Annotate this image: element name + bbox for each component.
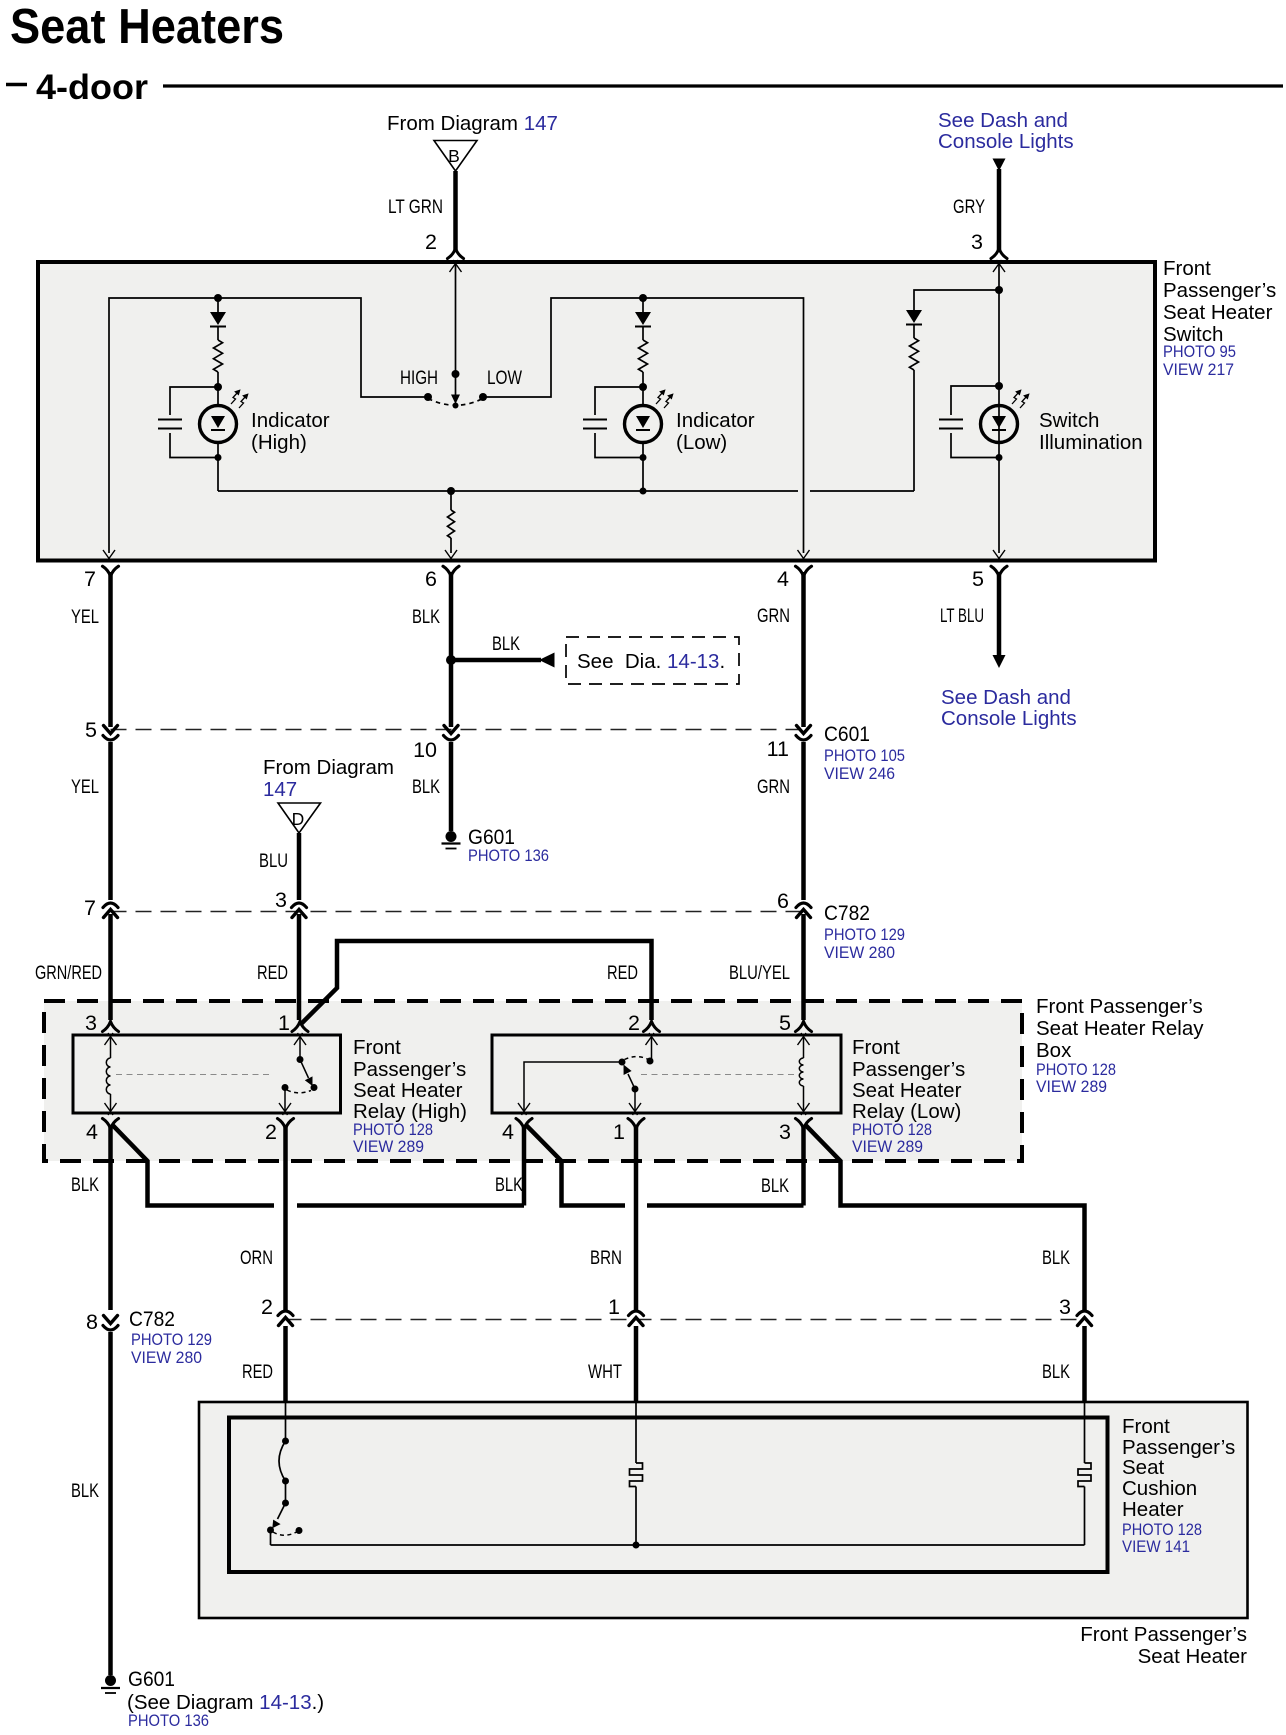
fork relay high pin 2 [278, 1119, 294, 1129]
relay high contact to pin 2 [284, 1088, 286, 1112]
label Front Passengers Seat Cushion Heater [1122, 1415, 1235, 1556]
svg-text:PHOTO 128: PHOTO 128 [353, 1121, 433, 1139]
svg-text:PHOTO 129: PHOTO 129 [824, 926, 905, 944]
dashed connector line C782 (lower) [286, 1319, 1085, 1321]
svg-text:Passenger’s: Passenger’s [1163, 279, 1276, 302]
svg-text:(High): (High) [251, 431, 307, 454]
relay high coil wire bottom [110, 1094, 112, 1111]
connector triangle D from diagram 147 [278, 803, 321, 833]
svg-text:3: 3 [1059, 1295, 1071, 1319]
wire to indicator high diode [217, 298, 219, 312]
wire GRN/RED C782 to relay pin 3 [108, 914, 113, 1020]
thermostat closed contact [267, 1527, 274, 1534]
svg-text:1: 1 [608, 1295, 620, 1319]
resistor switch illumination [910, 338, 919, 370]
svg-text:From Diagram: From Diagram [263, 756, 394, 779]
arrow relay low pin 1 exit [629, 1103, 641, 1115]
svg-text:PHOTO 136: PHOTO 136 [128, 1712, 209, 1730]
connector C782 pin 1 [629, 1311, 644, 1326]
svg-text:Front: Front [1163, 257, 1211, 280]
connector C601 pin 6/10 [444, 726, 459, 741]
node illumination top [995, 286, 1003, 294]
svg-text:VIEW 280: VIEW 280 [824, 944, 895, 962]
svg-text:VIEW 217: VIEW 217 [1163, 361, 1234, 379]
wire BLK relay low pin 4 down [522, 1125, 527, 1206]
svg-text:4-door: 4-door [36, 67, 148, 107]
relay (low) box [492, 1035, 841, 1113]
svg-text:RED: RED [257, 962, 288, 984]
junction heater bus / element 1 [633, 1542, 640, 1549]
connector C782 pin 6 [796, 903, 811, 918]
capacitor switch illumination [939, 420, 963, 429]
wire resistor to LED (low) [642, 372, 644, 406]
wire BLK pin6 to C601 [449, 572, 454, 727]
wire LED low to common [642, 443, 644, 492]
svg-text:Seat Heater: Seat Heater [353, 1079, 463, 1102]
node indicator high top [214, 294, 222, 302]
node indicator low cap bottom [640, 454, 647, 461]
dashed connector line C782 [111, 911, 804, 913]
svg-text:GRN/RED: GRN/RED [35, 962, 102, 984]
capacitor indicator low [583, 420, 607, 429]
svg-text:Relay (Low): Relay (Low) [852, 1100, 961, 1123]
wire LT BLU pin5 down [997, 572, 1002, 656]
svg-text:147: 147 [263, 778, 297, 801]
svg-text:PHOTO 128: PHOTO 128 [852, 1121, 932, 1139]
fork relay high pin 4 [103, 1119, 119, 1129]
wire WHT C782 to heater [634, 1326, 639, 1403]
relay low coil wire bottom [803, 1086, 805, 1111]
node illumination cap tap [995, 382, 1003, 390]
svg-text:4: 4 [777, 567, 789, 591]
connector C601 pin 4/11 [796, 726, 811, 741]
arrow at pin 2 entry [450, 260, 462, 272]
svg-text:6: 6 [777, 889, 789, 913]
diode indicator low [635, 312, 651, 327]
svg-text:Seat Heater: Seat Heater [1138, 1645, 1248, 1668]
svg-text:Indicator: Indicator [251, 409, 330, 432]
svg-text:BLK: BLK [761, 1175, 789, 1197]
label Front Passengers Seat Heater Relay (High) [353, 1036, 467, 1156]
svg-text:11: 11 [767, 737, 789, 761]
wire GRN C601 to C782 [801, 742, 806, 900]
wire RED C782 to relay pin 1 [297, 914, 302, 1020]
arrow at pin 4 exit [798, 550, 810, 562]
svg-text:PHOTO 95: PHOTO 95 [1163, 343, 1236, 361]
svg-text:LOW: LOW [487, 367, 522, 389]
relay high switch pivot [297, 1056, 304, 1063]
svg-text:4: 4 [86, 1120, 98, 1144]
connector C782 pin 3 lower [1077, 1311, 1092, 1326]
svg-text:6: 6 [425, 567, 437, 591]
node indicator high cap tap [214, 383, 222, 391]
svg-text:GRY: GRY [953, 196, 985, 218]
svg-text:BLK: BLK [412, 776, 440, 798]
arrow at pin 3 entry [993, 260, 1005, 272]
svg-text:4: 4 [502, 1120, 514, 1144]
selector dashed throw arc [428, 399, 483, 406]
wire BLK relay high pin 4 down to C782 [108, 1125, 113, 1310]
connector triangle B from diagram 147 [434, 141, 477, 172]
svg-text:5: 5 [85, 718, 97, 742]
wire BLK relay low pin 3 down [801, 1125, 806, 1206]
arrow at pin 5 exit [993, 550, 1005, 562]
svg-text:PHOTO 128: PHOTO 128 [1036, 1061, 1116, 1079]
svg-text:(See Diagram 14-13.): (See Diagram 14-13.) [127, 1691, 324, 1714]
HIGH contact [424, 393, 432, 401]
wire LED high to common [217, 443, 219, 492]
front passenger seat heater relay box (dashed) [44, 1001, 1022, 1161]
svg-text:10: 10 [413, 738, 437, 762]
arrow relay low pin 4 exit [518, 1103, 530, 1115]
arrow relay low pin 2 entry [646, 1033, 658, 1045]
connector fork pin 4 [796, 566, 812, 576]
wire diode to resistor (illum) [913, 325, 915, 338]
node indicator low cap tap [639, 383, 647, 391]
wire common ground bus (right) [810, 490, 914, 492]
svg-text:Box: Box [1036, 1039, 1072, 1062]
thermostat bimetal arc [279, 1441, 286, 1481]
wire BLU/YEL C782 to relay pin 5 [801, 914, 806, 1020]
svg-text:PHOTO 129: PHOTO 129 [131, 1331, 212, 1349]
svg-text:BLK: BLK [71, 1174, 99, 1196]
thermostat to heater bus [270, 1530, 272, 1545]
node indicator low top [639, 294, 647, 302]
wire illumination resistor to bus [913, 370, 915, 491]
light arrows switch illumination [1012, 390, 1029, 408]
svg-text:D: D [292, 809, 305, 829]
connector C601 pin 5/7 [103, 726, 118, 741]
thermostat mid node [282, 1478, 289, 1485]
relay low pivot [632, 1086, 639, 1093]
light arrows indicator high [231, 390, 248, 408]
label Front Passengers Seat Heater Switch [1163, 257, 1276, 379]
svg-text:PHOTO 105: PHOTO 105 [824, 747, 905, 765]
thermostat open contact [296, 1527, 303, 1534]
svg-text:(Low): (Low) [676, 431, 727, 454]
relay high output contact [282, 1084, 289, 1091]
svg-text:HIGH: HIGH [400, 367, 438, 389]
arrow relay high pin 1 entry [294, 1033, 306, 1045]
wire RED into thermostat [285, 1403, 287, 1441]
svg-text:Seat Heater: Seat Heater [852, 1079, 962, 1102]
wire GRY to switch pin 3 [997, 169, 1002, 250]
wire GRN pin4 to C601 [801, 572, 806, 727]
svg-text:VIEW 289: VIEW 289 [1036, 1078, 1107, 1096]
svg-text:Front Passenger’s: Front Passenger’s [1036, 995, 1203, 1018]
arrow relay high pin 3 entry [105, 1033, 117, 1045]
svg-text:BLK: BLK [492, 633, 520, 655]
front passenger seat heater outer box [199, 1402, 1248, 1618]
wire pin2 to selector [455, 264, 457, 374]
diode switch illumination [906, 310, 922, 325]
svg-text:VIEW 289: VIEW 289 [852, 1138, 923, 1156]
wire common ground bus (left) [218, 490, 798, 492]
svg-text:3: 3 [971, 230, 983, 254]
selector blade arrow [451, 374, 460, 404]
wire cap illum bottom [951, 433, 999, 458]
svg-text:BLK: BLK [71, 1480, 99, 1502]
fork relay low pin 1 [628, 1119, 644, 1129]
heater element 2 [1078, 1463, 1091, 1487]
wire BLK bus left-mid [297, 1203, 524, 1208]
svg-text:8: 8 [86, 1310, 98, 1334]
svg-text:BLK: BLK [1042, 1247, 1070, 1269]
svg-text:GRN: GRN [757, 776, 790, 798]
svg-text:2: 2 [425, 230, 437, 254]
capacitor indicator high [158, 420, 182, 429]
svg-text:5: 5 [972, 567, 984, 591]
svg-text:Seat: Seat [1122, 1456, 1164, 1479]
heater element 1 [630, 1463, 643, 1487]
svg-text:3: 3 [275, 888, 287, 912]
svg-text:Illumination: Illumination [1039, 431, 1143, 454]
relay low coil wire top [803, 1037, 805, 1058]
wire BLK relay low pin3 branch to heater [805, 1124, 1085, 1310]
connector fork pin 5 [991, 566, 1007, 576]
connector fork at switch pin 2 [448, 249, 464, 259]
diode indicator high [210, 312, 226, 327]
svg-text:1: 1 [613, 1120, 625, 1144]
svg-text:VIEW 289: VIEW 289 [353, 1138, 424, 1156]
svg-text:LT GRN: LT GRN [388, 196, 443, 218]
dashed box See Dia. 14-13. [566, 637, 739, 684]
wire BLK branch to see dia 14-13 [451, 658, 541, 663]
svg-text:BLK: BLK [412, 606, 440, 628]
wire to indicator low diode [642, 298, 644, 312]
thermostat dashed throw arc [273, 1532, 297, 1535]
fork relay low pin 4 [516, 1119, 532, 1129]
svg-text:3: 3 [85, 1011, 97, 1035]
relay high coil wire top [110, 1037, 112, 1058]
svg-text:BLU/YEL: BLU/YEL [729, 962, 790, 984]
wire cap high bottom [170, 433, 218, 458]
svg-text:ORN: ORN [240, 1247, 273, 1269]
svg-text:C782: C782 [129, 1307, 175, 1331]
arrow relay low pin 3 exit [798, 1103, 810, 1115]
resistor indicator low [639, 340, 648, 372]
arrow from dash and console lights [993, 159, 1006, 172]
svg-text:Passenger’s: Passenger’s [353, 1058, 466, 1081]
junction indicator low / bus [640, 488, 647, 495]
selector pivot dot [453, 403, 459, 409]
svg-text:Heater: Heater [1122, 1498, 1184, 1521]
svg-text:BRN: BRN [590, 1247, 622, 1269]
svg-text:RED: RED [607, 962, 638, 984]
svg-text:BLK: BLK [495, 1174, 523, 1196]
connector C782 pin 2 [278, 1311, 293, 1326]
svg-text:1: 1 [278, 1011, 290, 1035]
svg-text:3: 3 [779, 1120, 791, 1144]
svg-text:RED: RED [242, 1361, 273, 1383]
node indicator high cap bottom [215, 454, 222, 461]
svg-text:G601: G601 [128, 1667, 175, 1691]
relay high actuation dashed link [116, 1074, 269, 1076]
svg-text:YEL: YEL [71, 776, 99, 798]
LED switch illumination [981, 406, 1018, 443]
front passenger seat cushion heater inner box [229, 1418, 1108, 1573]
relay low fixed contact [647, 1058, 654, 1065]
svg-text:VIEW 280: VIEW 280 [131, 1349, 202, 1367]
thermostat blade with arrow [272, 1503, 285, 1528]
wire resistor to pin 6 [450, 538, 452, 553]
relay (high) box [73, 1035, 341, 1113]
header rule [163, 84, 1283, 87]
fork relay high pin 3 [103, 1022, 119, 1032]
svg-text:C601: C601 [824, 722, 870, 746]
wire RED relay high pin1 to relay low pin2 [300, 941, 652, 1025]
relay high switch blade [300, 1060, 313, 1087]
relay high coil [106, 1058, 110, 1094]
svg-text:Front: Front [1122, 1415, 1170, 1438]
label Front Passengers Seat Heater Relay Box [1036, 995, 1204, 1096]
connector C782 pin 5/7 [103, 903, 118, 918]
relay high NO contact [311, 1084, 318, 1091]
LED indicator high [200, 406, 237, 443]
wire BLK relay low pin4 branch [525, 1124, 625, 1206]
svg-text:Front Passenger’s: Front Passenger’s [1080, 1623, 1247, 1646]
ground G601 (middle) [442, 831, 461, 849]
LED indicator low [625, 406, 662, 443]
arrow relay high pin 4 exit [105, 1103, 117, 1115]
wire BLK bus mid-right [647, 1203, 804, 1208]
svg-text:Indicator: Indicator [676, 409, 755, 432]
wire to cap low top [595, 387, 643, 415]
svg-text:VIEW 141: VIEW 141 [1122, 1538, 1190, 1556]
dashed connector line C601 [111, 729, 804, 731]
svg-text:Relay (High): Relay (High) [353, 1100, 467, 1123]
wire pin 3 to pin 5 [998, 264, 1000, 553]
svg-text:Console Lights: Console Lights [938, 130, 1074, 153]
arrow relay high pin 2 exit [279, 1103, 291, 1115]
wire cap low bottom [595, 433, 643, 458]
fork relay low pin 3 [796, 1119, 812, 1129]
wire BLK into element 2 [1084, 1403, 1086, 1463]
junction bus / pin 6 resistor [447, 487, 455, 495]
wire element 2 to bus [1084, 1487, 1086, 1546]
heater element bus [271, 1544, 1085, 1546]
label Front Passengers Seat Heater Relay (Low) [852, 1036, 965, 1156]
svg-text:G601: G601 [468, 825, 515, 849]
LOW contact [479, 393, 487, 401]
relay low coil [799, 1058, 803, 1086]
thermostat blade pivot [282, 1500, 289, 1507]
svg-text:5: 5 [779, 1011, 791, 1035]
fork relay high pin 1 [292, 1022, 308, 1032]
connector fork pin 7 [103, 566, 119, 576]
wire diode to resistor (high) [217, 327, 219, 340]
svg-text:2: 2 [265, 1120, 277, 1144]
wire RED C782 to heater [283, 1326, 288, 1403]
front passenger seat heater switch box [38, 262, 1155, 561]
wire diode to resistor (low) [642, 327, 644, 340]
svg-text:WHT: WHT [588, 1361, 622, 1383]
arrow relay low pin 5 entry [798, 1033, 810, 1045]
svg-text:7: 7 [84, 567, 96, 591]
svg-text:VIEW 246: VIEW 246 [824, 765, 895, 783]
wire to cap high top [170, 387, 218, 415]
arrow at pin 6 exit [445, 550, 457, 562]
thermostat top node [282, 1438, 289, 1445]
header dash [6, 83, 27, 87]
svg-text:BLU: BLU [259, 850, 288, 872]
svg-text:GRN: GRN [757, 605, 790, 627]
resistor to pin 6 [448, 510, 455, 538]
connector C782 pin 3 [292, 903, 307, 918]
relay high switch feed [299, 1037, 301, 1060]
fork relay low pin 2 [644, 1022, 660, 1032]
svg-text:YEL: YEL [71, 606, 99, 628]
svg-text:Front: Front [353, 1036, 401, 1059]
svg-text:C782: C782 [824, 901, 870, 925]
relay low switch feed [651, 1037, 653, 1060]
fork relay low pin 5 [796, 1022, 812, 1032]
relay low contact to pin 4 [524, 1062, 622, 1111]
wire to illumination diode [914, 290, 999, 310]
svg-text:Front: Front [852, 1036, 900, 1059]
ground G601 (bottom) [101, 1675, 120, 1693]
wire to cap illum top [951, 386, 999, 415]
svg-text:B: B [448, 146, 460, 166]
svg-text:See Dia. 14-13.: See Dia. 14-13. [577, 650, 725, 673]
svg-text:Passenger’s: Passenger’s [852, 1058, 965, 1081]
wire BLK pin 8 to G601 [108, 1332, 113, 1675]
svg-text:2: 2 [261, 1295, 273, 1319]
node illumination cap bottom [996, 454, 1003, 461]
arrowhead to See Dia. 14-13. [539, 653, 555, 668]
junction BLK branch [446, 655, 456, 665]
light arrows indicator low [656, 390, 673, 408]
wire BRN relay low pin 1 down [634, 1125, 639, 1310]
svg-text:Seat Heaters: Seat Heaters [10, 0, 284, 54]
wire bus to resistor 6 [450, 491, 452, 510]
svg-text:See Dash and: See Dash and [938, 109, 1068, 132]
connector fork at switch pin 3 [991, 249, 1007, 259]
wire BLK relay high pin4 branch [112, 1124, 275, 1206]
arrow to dash and console lights (bottom) [993, 655, 1006, 668]
wire BLK C601 to G601 [449, 742, 454, 831]
connector C782 pin 8 [103, 1316, 118, 1331]
relay low dashed throw arc [625, 1057, 648, 1060]
wire HIGH contact to pin 7 leg [109, 298, 428, 553]
svg-text:Cushion: Cushion [1122, 1477, 1197, 1500]
wire resistor to LED (high) [217, 372, 219, 406]
svg-text:From Diagram 147: From Diagram 147 [387, 112, 558, 135]
arrow at pin 7 exit [103, 550, 115, 562]
svg-text:7: 7 [84, 896, 96, 920]
svg-text:PHOTO 128: PHOTO 128 [1122, 1521, 1202, 1539]
svg-text:Seat Heater: Seat Heater [1163, 301, 1273, 324]
node selector feed [452, 370, 460, 378]
wire element 1 to bus [635, 1487, 637, 1546]
wire WHT into element 1 [635, 1403, 637, 1463]
svg-text:LT BLU: LT BLU [940, 605, 984, 627]
svg-text:BLK: BLK [1042, 1361, 1070, 1383]
wire LOW contact to pin 4 leg [483, 298, 804, 553]
relay low actuation dashed link [641, 1074, 795, 1076]
wire BLU triangle D to C782 [297, 833, 302, 900]
relay high dashed throw arc [287, 1090, 311, 1093]
wire YEL pin7 to C601 [108, 572, 113, 727]
connector fork pin 6 [443, 566, 459, 576]
wire LT GRN from triangle B to switch pin 2 [453, 171, 458, 250]
relay low switch blade [624, 1065, 636, 1090]
svg-text:2: 2 [628, 1011, 640, 1035]
wire BLK C782 to heater [1082, 1326, 1087, 1403]
svg-text:Seat Heater Relay: Seat Heater Relay [1036, 1017, 1204, 1040]
svg-text:Console Lights: Console Lights [941, 707, 1077, 730]
svg-text:PHOTO 136: PHOTO 136 [468, 847, 549, 865]
